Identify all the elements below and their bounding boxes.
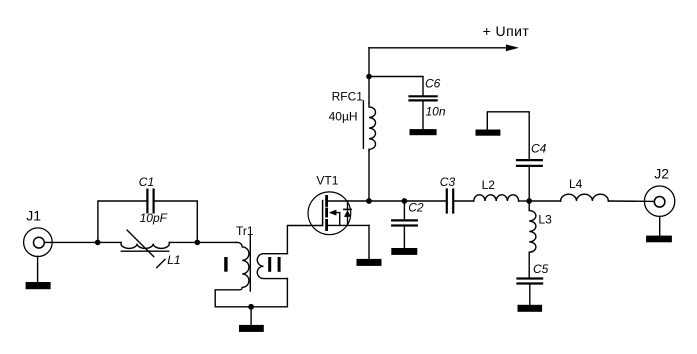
svg-text:L3: L3 bbox=[538, 213, 552, 227]
svg-text:RFC1: RFC1 bbox=[332, 90, 364, 104]
svg-text:10n: 10n bbox=[426, 105, 446, 119]
svg-text:J2: J2 bbox=[654, 165, 669, 181]
svg-text:C4: C4 bbox=[531, 142, 547, 156]
svg-text:VT1: VT1 bbox=[316, 174, 338, 188]
svg-text:C5: C5 bbox=[533, 262, 549, 276]
svg-text:L2: L2 bbox=[482, 178, 496, 192]
svg-text:10pF: 10pF bbox=[140, 211, 168, 225]
svg-text:L1: L1 bbox=[167, 253, 180, 267]
svg-text:C6: C6 bbox=[425, 77, 441, 91]
svg-text:J1: J1 bbox=[26, 208, 41, 224]
svg-text:40µH: 40µH bbox=[329, 110, 358, 124]
svg-text:C3: C3 bbox=[440, 175, 456, 189]
svg-text:L4: L4 bbox=[569, 177, 583, 191]
svg-text:+ Uпит: + Uпит bbox=[483, 23, 530, 39]
svg-text:C2: C2 bbox=[408, 200, 424, 214]
svg-text:C1: C1 bbox=[139, 175, 154, 189]
svg-text:Tr1: Tr1 bbox=[236, 224, 254, 238]
